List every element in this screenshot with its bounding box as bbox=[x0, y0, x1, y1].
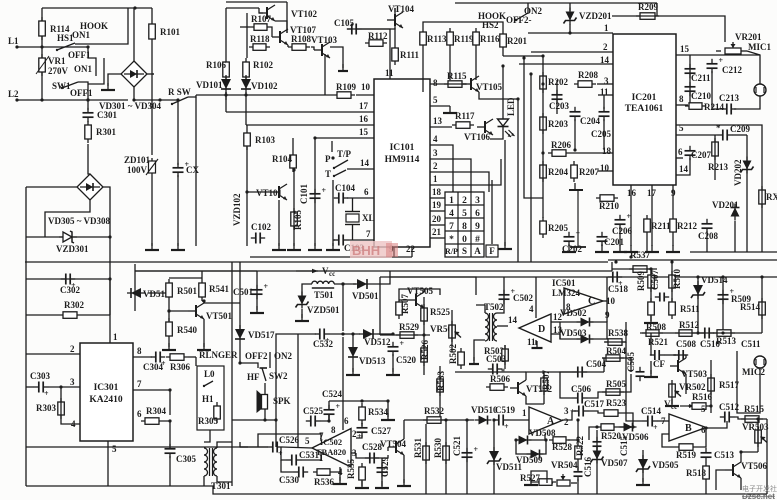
svg-text:C508: C508 bbox=[676, 339, 696, 349]
resistor R201 bbox=[500, 30, 507, 51]
wire VT105 emitter bbox=[479, 92, 518, 99]
wire R113 col bbox=[422, 49, 424, 92]
wire r538 wiring bbox=[605, 322, 626, 342]
svg-text:VD512: VD512 bbox=[364, 337, 391, 347]
svg-text:H1: H1 bbox=[202, 394, 214, 404]
wire vt502 c bbox=[526, 372, 544, 380]
resistor R528 bbox=[549, 437, 570, 444]
svg-text:R528: R528 bbox=[552, 442, 572, 452]
svg-text:IC501: IC501 bbox=[552, 278, 576, 288]
wire bridge right bbox=[147, 73, 154, 75]
svg-text:R533: R533 bbox=[436, 371, 446, 391]
wire vcc branch bbox=[134, 264, 136, 311]
capacitor C520 bbox=[388, 339, 405, 356]
wire r107 col bbox=[246, 13, 248, 58]
svg-text:VD502: VD502 bbox=[560, 308, 587, 318]
svg-text:C213: C213 bbox=[719, 93, 739, 103]
wire vd509 wiring bbox=[516, 440, 546, 454]
label VR502 bbox=[679, 382, 706, 392]
label VT105 bbox=[476, 82, 503, 92]
wire third rail right bbox=[380, 276, 777, 278]
wire pin20 bbox=[430, 224, 445, 226]
pin 6 ic301 bbox=[137, 409, 142, 419]
label VD507 bbox=[601, 458, 628, 468]
svg-text:VD503: VD503 bbox=[560, 328, 587, 338]
pin 11 opD bbox=[527, 337, 536, 347]
svg-text:Dzsc.net: Dzsc.net bbox=[742, 492, 775, 500]
pin 18a bbox=[602, 146, 612, 156]
wire pin19 bbox=[430, 210, 445, 212]
wire r20x join bbox=[503, 55, 543, 57]
svg-text:MIC1: MIC1 bbox=[748, 42, 771, 52]
wire c504 left bbox=[560, 372, 573, 398]
capacitor C210 bbox=[685, 82, 696, 96]
pin 1 bbox=[604, 23, 609, 33]
resistor R519 bbox=[675, 444, 697, 451]
label C512 bbox=[719, 402, 739, 412]
svg-text:+: + bbox=[400, 339, 405, 348]
transistor VT105 bbox=[463, 76, 479, 92]
ground r535 bbox=[355, 481, 369, 488]
svg-text:+: + bbox=[357, 432, 362, 441]
keypad gnd bar bbox=[570, 190, 586, 247]
svg-text:R202: R202 bbox=[548, 77, 568, 87]
resistor R537 bbox=[629, 266, 651, 273]
pin 8 ic301 bbox=[137, 346, 142, 356]
wire amp net gnd bbox=[387, 401, 389, 417]
capacitor C521 bbox=[462, 445, 479, 462]
pin 10 bbox=[361, 82, 371, 92]
svg-text:10: 10 bbox=[361, 82, 371, 92]
wire c525 net bbox=[320, 414, 329, 421]
pin 13 opD bbox=[553, 325, 563, 335]
svg-text:VR201: VR201 bbox=[735, 32, 762, 42]
svg-text:C512: C512 bbox=[719, 402, 739, 412]
svg-text:C517: C517 bbox=[584, 399, 604, 409]
wire vt501 col right bbox=[204, 302, 240, 304]
wire vt506 c bbox=[741, 452, 758, 462]
resistor R534 bbox=[359, 403, 366, 424]
label R511 bbox=[680, 304, 700, 314]
wire vd501 right bbox=[371, 271, 390, 284]
capacitor C519 bbox=[494, 415, 509, 432]
capacitor C522 bbox=[574, 467, 583, 481]
pin 21 bbox=[432, 227, 442, 237]
capacitor C532 bbox=[315, 329, 330, 346]
resistor R536 bbox=[313, 469, 334, 476]
pin 2 bbox=[433, 161, 438, 171]
label C530 bbox=[279, 475, 299, 485]
svg-text:R106: R106 bbox=[206, 60, 226, 70]
svg-text:C208: C208 bbox=[698, 231, 718, 241]
label R513 bbox=[716, 336, 736, 346]
svg-text:R523: R523 bbox=[606, 398, 626, 408]
wire r536 out bbox=[334, 467, 340, 472]
svg-text:LM324: LM324 bbox=[552, 288, 580, 298]
svg-text:R516: R516 bbox=[692, 392, 712, 402]
pin 14a bbox=[600, 55, 610, 65]
keypad grid bbox=[445, 192, 484, 257]
svg-text:C514: C514 bbox=[641, 406, 661, 416]
svg-text:C212: C212 bbox=[722, 65, 742, 75]
resistor R208 bbox=[574, 70, 598, 87]
svg-text:L1: L1 bbox=[8, 36, 19, 46]
zener VZD501 bbox=[296, 292, 309, 309]
diode VD101 bbox=[221, 75, 231, 93]
wire c213 wiring bbox=[712, 71, 722, 109]
wire r532 wiring bbox=[404, 419, 474, 421]
wire col 240 bbox=[239, 262, 241, 331]
ground vzd501 bbox=[295, 314, 309, 321]
svg-text:7: 7 bbox=[137, 379, 142, 389]
svg-text:R535: R535 bbox=[346, 459, 356, 479]
keypad digits bbox=[449, 196, 480, 245]
wire opD in1 bbox=[551, 321, 560, 323]
label R525 bbox=[430, 307, 450, 317]
zener VD202 bbox=[741, 157, 754, 174]
wire c305 down bbox=[169, 456, 171, 486]
wire vt102 base feed bbox=[259, 8, 263, 13]
svg-text:R104: R104 bbox=[272, 154, 292, 164]
svg-text:R304: R304 bbox=[146, 406, 166, 416]
wire c203 col bbox=[556, 80, 558, 114]
wire opA out bbox=[562, 411, 576, 420]
svg-text:7: 7 bbox=[366, 229, 371, 239]
wire rail drop bbox=[656, 3, 658, 16]
capacitor C101 bbox=[310, 186, 327, 203]
wire bottom rail bbox=[26, 486, 767, 494]
ground c529 bbox=[375, 481, 389, 488]
ground pin16 col bbox=[624, 245, 638, 252]
label R506 bbox=[490, 374, 510, 384]
wire r537 wiring bbox=[612, 268, 657, 270]
svg-text:L0: L0 bbox=[204, 369, 215, 379]
label C203 bbox=[549, 101, 569, 111]
svg-text:+: + bbox=[576, 229, 581, 238]
svg-text:R513: R513 bbox=[716, 336, 736, 346]
resistor R119 bbox=[447, 28, 454, 49]
label C514 bbox=[641, 406, 661, 416]
resistor R532 bbox=[423, 417, 445, 424]
label C211 bbox=[691, 73, 711, 83]
svg-text:8: 8 bbox=[462, 222, 467, 232]
svg-text:R206: R206 bbox=[551, 140, 571, 150]
svg-text:cc: cc bbox=[671, 403, 677, 411]
wire vt506 base bbox=[716, 470, 725, 490]
resistor R526 bbox=[421, 344, 428, 366]
wire c506 wiring bbox=[587, 374, 631, 398]
label R111 bbox=[400, 50, 420, 60]
wire c204 gnd bar bbox=[569, 189, 583, 191]
pin 3 bbox=[433, 148, 438, 158]
wire r522 down bbox=[577, 463, 579, 470]
svg-text:C302: C302 bbox=[60, 285, 80, 295]
wire right bottom rail2 bbox=[608, 259, 777, 261]
transistor VT506 bbox=[725, 462, 741, 478]
label R507b bbox=[541, 370, 551, 390]
capacitor C509 bbox=[718, 287, 735, 304]
wire ic301 pin1 bbox=[109, 279, 111, 343]
svg-text:R303: R303 bbox=[36, 403, 56, 413]
label C528 bbox=[362, 442, 382, 452]
wire cf row bbox=[651, 333, 652, 355]
wire r306 right bbox=[188, 356, 196, 358]
wire rail jog bbox=[611, 262, 613, 271]
pin 7 opB bbox=[661, 416, 666, 426]
svg-text:14: 14 bbox=[508, 315, 518, 325]
wire opD pin4 up bbox=[535, 277, 537, 318]
svg-text:3: 3 bbox=[70, 377, 75, 387]
ground r540 bbox=[162, 343, 176, 350]
svg-text:R525: R525 bbox=[430, 307, 450, 317]
wire top right rail bbox=[455, 2, 657, 4]
wire pin22 down bbox=[411, 247, 413, 257]
wire VZD102 col bbox=[246, 192, 248, 246]
label VD501 bbox=[352, 291, 379, 301]
pin 7 ic101 bbox=[366, 229, 371, 239]
pin 20 bbox=[432, 214, 442, 224]
wire c502 wiring bbox=[497, 277, 504, 313]
svg-text:15: 15 bbox=[680, 44, 690, 54]
resistor R523 bbox=[600, 410, 622, 417]
pin 2 bbox=[603, 42, 608, 52]
label VD301-VD304 bbox=[99, 101, 162, 111]
wire left net down bbox=[26, 446, 268, 448]
wire pin6 bbox=[347, 197, 374, 199]
resistor R520 bbox=[597, 424, 618, 431]
resistor R305 bbox=[214, 402, 221, 423]
wire R201 col bbox=[502, 51, 504, 56]
wire vt103 c bbox=[324, 54, 326, 95]
ground C206 col bbox=[613, 245, 627, 252]
label C532 bbox=[313, 339, 333, 349]
wire keypad col out bbox=[491, 180, 493, 244]
switch T/P bbox=[333, 160, 348, 169]
ground C201 col bbox=[595, 245, 609, 252]
wire C105 wiring bbox=[361, 8, 395, 29]
label R540 bbox=[177, 325, 197, 335]
pin 18 bbox=[432, 187, 442, 197]
wire pin3 bbox=[430, 159, 471, 192]
wire c524 top stub bbox=[328, 401, 330, 409]
label C527 bbox=[371, 426, 391, 436]
wire bridge2 right arm bbox=[103, 187, 110, 237]
svg-text:R102: R102 bbox=[253, 60, 273, 70]
resistor R504 bbox=[602, 355, 624, 362]
wire C101 col bbox=[314, 138, 316, 246]
wire R109 to IC bbox=[356, 94, 374, 96]
svg-text:VZD102: VZD102 bbox=[232, 193, 242, 226]
pot VR503 bbox=[755, 426, 767, 447]
label HOOK bbox=[80, 21, 108, 31]
wire pin10 ic201 bbox=[598, 170, 613, 172]
microphone MIC1 bbox=[754, 84, 766, 96]
svg-text:8: 8 bbox=[433, 78, 438, 88]
capacitor C206 bbox=[615, 212, 632, 229]
wire vt501 c bbox=[202, 301, 204, 303]
svg-text:C503: C503 bbox=[486, 354, 506, 364]
pin 14 bbox=[360, 158, 370, 168]
wire ZD101 down bbox=[151, 178, 153, 246]
diode VD508 bbox=[515, 436, 532, 445]
label VR1 bbox=[36, 56, 69, 76]
label LED bbox=[506, 97, 516, 116]
label C213 bbox=[719, 93, 739, 103]
pin 1 opA bbox=[522, 408, 527, 418]
pin 8 tba bbox=[331, 425, 336, 435]
wire r514 col bbox=[761, 277, 763, 333]
label VZD501 bbox=[307, 305, 340, 315]
wire vd511 col bbox=[493, 420, 495, 494]
pin 2 opA bbox=[564, 417, 569, 427]
svg-text:VT501: VT501 bbox=[206, 311, 233, 321]
wire pin17 down bbox=[651, 185, 653, 246]
wire r523 out bbox=[622, 413, 633, 427]
label C518 bbox=[608, 284, 628, 294]
wire VT104 top bbox=[394, 8, 396, 12]
wire t502 left gnd bbox=[474, 340, 485, 361]
svg-text:16: 16 bbox=[627, 188, 637, 198]
capacitor C305 bbox=[165, 444, 176, 458]
svg-text:OFF2-: OFF2- bbox=[506, 15, 532, 25]
pin 1 bbox=[433, 174, 438, 184]
wire 284 to c532 bbox=[342, 284, 344, 331]
label R306 bbox=[170, 362, 190, 372]
resistor R206 bbox=[548, 150, 570, 157]
svg-text:21: 21 bbox=[432, 227, 442, 237]
wire vd505 col bbox=[642, 450, 644, 482]
label C104 bbox=[335, 183, 355, 193]
svg-text:RX: RX bbox=[766, 192, 777, 202]
svg-text:R112: R112 bbox=[368, 31, 388, 41]
label VD513 bbox=[359, 356, 386, 366]
wire pin14b bbox=[676, 158, 690, 175]
svg-text:C102: C102 bbox=[251, 222, 271, 232]
label C506 bbox=[571, 384, 591, 394]
svg-text:VR502: VR502 bbox=[679, 382, 706, 392]
svg-text:R211: R211 bbox=[651, 221, 671, 231]
diode VD517 bbox=[235, 325, 245, 343]
transistor VT503 bbox=[670, 358, 686, 374]
capacitor C524 bbox=[324, 402, 341, 419]
wire c524 net bbox=[328, 414, 330, 421]
label RLNGER bbox=[199, 350, 238, 360]
svg-text:3: 3 bbox=[564, 406, 569, 416]
wire R109 wiring bbox=[196, 94, 333, 96]
label VD515 bbox=[143, 289, 170, 299]
wire r104 up bbox=[292, 138, 294, 151]
capacitor C502 bbox=[499, 287, 516, 304]
pin 14b bbox=[679, 164, 689, 174]
capacitor C213 bbox=[722, 104, 736, 115]
wire R302 to IC301 bbox=[81, 314, 110, 316]
svg-text:18: 18 bbox=[602, 146, 612, 156]
svg-text:R205: R205 bbox=[548, 223, 568, 233]
ground R212 col bbox=[666, 245, 680, 252]
wire pin4 bbox=[430, 145, 453, 192]
svg-text:C513: C513 bbox=[714, 450, 734, 460]
ground pin17 col bbox=[645, 245, 659, 252]
wire r528 out bbox=[568, 420, 578, 440]
svg-text:TEA1061: TEA1061 bbox=[625, 104, 664, 114]
wire pin3 ic201 bbox=[597, 83, 613, 85]
svg-text:VD501: VD501 bbox=[352, 291, 379, 301]
label R305 bbox=[198, 416, 218, 426]
svg-text:R208: R208 bbox=[578, 70, 598, 80]
wire vt504 c bbox=[403, 420, 405, 439]
pin 5 ic301 bbox=[112, 444, 117, 454]
svg-text:VT104: VT104 bbox=[388, 4, 415, 14]
transistor VT501 bbox=[188, 303, 204, 319]
label ON2 b bbox=[274, 351, 293, 361]
label VD201 bbox=[712, 200, 739, 210]
label RX bbox=[766, 192, 777, 202]
capacitor C205 bbox=[599, 107, 610, 121]
keypad F cell bbox=[486, 245, 498, 257]
svg-text:R109: R109 bbox=[336, 82, 356, 92]
pin 1 tba bbox=[319, 453, 324, 463]
wire R105 col bbox=[293, 170, 295, 246]
svg-text:C201: C201 bbox=[604, 237, 624, 247]
pin 5 bbox=[433, 95, 438, 105]
wire t301 right2 bbox=[217, 476, 232, 482]
resistor R514 bbox=[759, 298, 766, 319]
label VT104 bbox=[388, 4, 415, 14]
wire 380 drop bbox=[379, 277, 381, 335]
resistor R106 bbox=[206, 58, 229, 81]
wire r527 wiring bbox=[531, 471, 547, 483]
svg-text:OFF1: OFF1 bbox=[70, 88, 93, 98]
wire vd101 col down bbox=[225, 92, 227, 112]
ground vt501 bbox=[197, 343, 211, 350]
wire ON2 up bbox=[527, 3, 529, 13]
capacitor C201 bbox=[597, 232, 608, 246]
svg-text:S: S bbox=[462, 246, 467, 256]
wire R107 l bbox=[240, 26, 250, 28]
capacitor C501 bbox=[252, 282, 269, 299]
wire r501 r540 bbox=[168, 301, 170, 321]
pin 10a bbox=[600, 163, 610, 173]
label H1 bbox=[202, 394, 214, 404]
wire r516 out bbox=[710, 405, 711, 407]
wire opD in2 bbox=[551, 333, 560, 335]
svg-text:6: 6 bbox=[678, 147, 683, 157]
wire r503 col bbox=[504, 345, 506, 369]
wire pin2 bbox=[430, 172, 489, 192]
wire pin11 ic201 bbox=[598, 94, 613, 96]
svg-text:VZD201: VZD201 bbox=[579, 11, 612, 21]
label VD510 bbox=[471, 405, 498, 415]
wire ladder right v bbox=[109, 237, 111, 279]
ground t502 bbox=[469, 357, 479, 364]
label R518 bbox=[686, 468, 706, 478]
wire r540 gnd bbox=[168, 340, 170, 347]
svg-text:17: 17 bbox=[359, 101, 369, 111]
wire c209 to vd202 bbox=[732, 134, 747, 136]
wire rx col bbox=[761, 135, 763, 252]
svg-text:R532: R532 bbox=[424, 406, 444, 416]
svg-text:C304: C304 bbox=[143, 362, 163, 372]
resistor R108 bbox=[288, 34, 311, 50]
resistor R530 bbox=[443, 442, 450, 464]
diode VD502 bbox=[577, 318, 594, 327]
resistor R304 bbox=[141, 418, 163, 425]
capacitor C212 bbox=[707, 56, 724, 73]
label R304 bbox=[146, 406, 166, 416]
label R537b bbox=[0, 0, 1, 1]
diode VD503 bbox=[577, 335, 594, 344]
node j2 bbox=[86, 98, 135, 101]
